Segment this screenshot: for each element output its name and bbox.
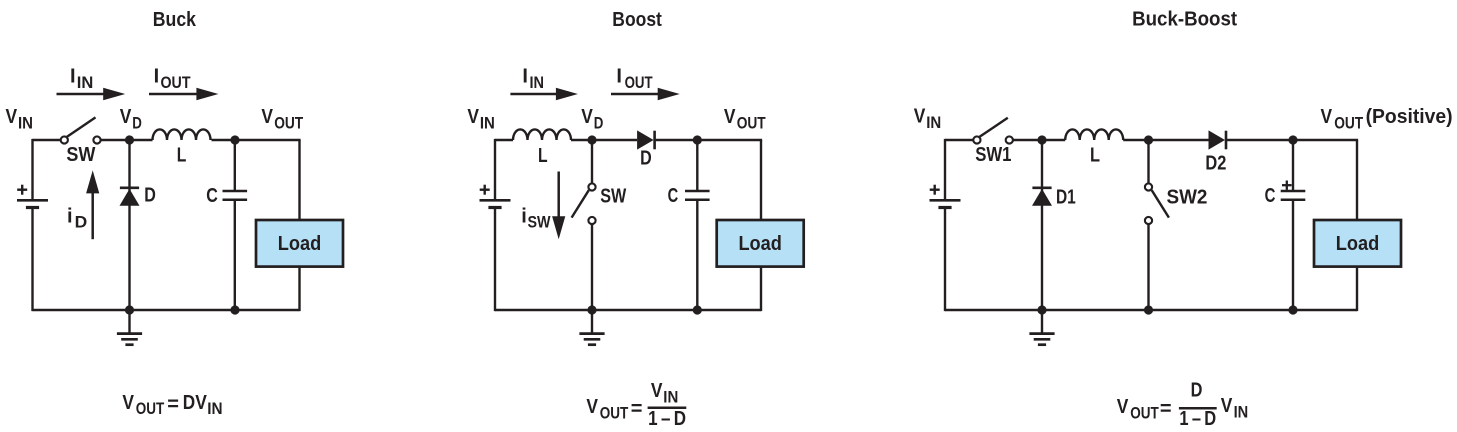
load box bbox=[717, 220, 804, 267]
wire: inductor to D2 (through SW2 node) bbox=[1123, 139, 1208, 141]
wire: SW2 to bottom rail bbox=[1147, 224, 1149, 310]
diode D (cathode up) bbox=[120, 188, 140, 206]
junction: cap top node (boost) bbox=[693, 135, 702, 144]
svg-text:V: V bbox=[261, 106, 273, 128]
svg-text:I: I bbox=[70, 66, 76, 88]
capacitor C plates bbox=[223, 191, 248, 200]
svg-text:V: V bbox=[467, 106, 479, 128]
svg-text:V: V bbox=[120, 106, 132, 128]
svg-text:IN: IN bbox=[207, 399, 222, 418]
wire: cap branch bottom (buck-boost) bbox=[1292, 200, 1294, 310]
junction: cap top node (buck-boost) bbox=[1288, 135, 1297, 144]
svg-text:OUT: OUT bbox=[625, 73, 653, 92]
svg-text:V: V bbox=[1221, 395, 1233, 417]
switch SW (boost, vertical open) bbox=[572, 183, 596, 224]
svg-text:IN: IN bbox=[530, 73, 545, 92]
wire: Vout down to load (boost) bbox=[760, 140, 762, 220]
wire: inductor to diode (through node VD) bbox=[571, 139, 637, 141]
wire: boost top-left to inductor bbox=[495, 139, 513, 141]
svg-text:V: V bbox=[724, 106, 736, 128]
wire: D2 to Vout corner bbox=[1227, 139, 1358, 141]
svg-text:Buck: Buck bbox=[153, 9, 197, 31]
svg-text:IN: IN bbox=[926, 113, 941, 132]
current arrow iSW (down) bbox=[552, 172, 565, 240]
svg-text:L: L bbox=[538, 145, 548, 167]
battery (voltage source) buck input source bbox=[17, 185, 48, 208]
svg-text:I: I bbox=[616, 66, 622, 88]
svg-text:D: D bbox=[183, 392, 195, 414]
svg-text:Load: Load bbox=[278, 233, 322, 255]
svg-text:V: V bbox=[586, 396, 598, 418]
svg-text:D: D bbox=[132, 114, 142, 133]
svg-text:SW: SW bbox=[600, 186, 626, 208]
inductor L (buck-boost) coil bbox=[1065, 129, 1123, 140]
formula: Vout = D Vin bbox=[122, 392, 222, 418]
svg-text:OUT: OUT bbox=[136, 399, 165, 418]
wire: load to bottom rail bbox=[298, 267, 300, 312]
current arrow IIN (boost) bbox=[510, 88, 578, 101]
svg-text:Load: Load bbox=[738, 233, 782, 255]
junction: cap bottom (buck-boost) bbox=[1288, 305, 1297, 314]
switch SW2 (vertical open) bbox=[1145, 183, 1169, 224]
load box bbox=[256, 220, 343, 267]
svg-text:OUT: OUT bbox=[600, 403, 629, 422]
svg-text:D: D bbox=[640, 148, 652, 170]
wire: buck left vertical (Vin to battery) bbox=[31, 139, 33, 200]
svg-text:C: C bbox=[206, 185, 218, 207]
svg-text:V: V bbox=[1321, 106, 1333, 128]
svg-text:C: C bbox=[668, 185, 679, 207]
svg-text:D: D bbox=[594, 114, 604, 133]
junction: D1 bottom bbox=[1037, 305, 1046, 314]
node: SW2 top junction bbox=[1144, 135, 1153, 144]
wire: top-left to SW1 bbox=[945, 139, 973, 141]
svg-text:IN: IN bbox=[1234, 402, 1249, 421]
wire: VD node down to switch bbox=[591, 140, 593, 183]
wire: Vout down to load bbox=[298, 140, 300, 220]
junction: cap top node bbox=[230, 135, 239, 144]
svg-text:IN: IN bbox=[77, 73, 94, 92]
wire: diode to Vout corner bbox=[656, 139, 763, 141]
wire: boost bottom rail bbox=[495, 309, 761, 311]
wire: load to bottom rail (boost) bbox=[760, 267, 762, 312]
svg-text:i: i bbox=[67, 205, 73, 227]
current arrow IOUT (boost) bbox=[611, 88, 680, 101]
ground (boost) bbox=[579, 310, 604, 345]
load box bbox=[1314, 220, 1401, 267]
wire: load to bottom rail (buck-boost) bbox=[1356, 267, 1358, 312]
svg-text:i: i bbox=[521, 205, 527, 227]
svg-text:=: = bbox=[167, 394, 179, 416]
svg-text:1 – D: 1 – D bbox=[648, 408, 686, 430]
svg-text:=: = bbox=[1160, 398, 1172, 420]
polarity + of capacitor C bbox=[1282, 181, 1292, 190]
wire: cap branch top (buck-boost) bbox=[1292, 140, 1294, 191]
node: D1 top junction bbox=[1037, 135, 1046, 144]
svg-text:V: V bbox=[1117, 396, 1129, 418]
svg-text:SW2: SW2 bbox=[1167, 187, 1208, 209]
svg-text:OUT: OUT bbox=[737, 114, 766, 133]
capacitor C (boost) plates bbox=[685, 191, 710, 200]
svg-text:IN: IN bbox=[480, 114, 495, 133]
current arrow IOUT (buck) bbox=[149, 88, 218, 101]
svg-text:=: = bbox=[631, 398, 643, 420]
wire: cap branch top bbox=[234, 140, 236, 191]
wire: cap branch top (boost) bbox=[696, 140, 698, 191]
svg-text:I: I bbox=[154, 66, 160, 88]
wire: boost left vertical bbox=[494, 139, 496, 200]
wire: diode branch vertical bbox=[128, 140, 130, 310]
wire: buck bottom rail bbox=[33, 309, 300, 311]
diode D2 (cathode right) bbox=[1209, 130, 1227, 149]
junction: switch bottom (boost) bbox=[587, 305, 596, 314]
svg-text:IN: IN bbox=[663, 388, 678, 407]
svg-text:SW: SW bbox=[66, 144, 95, 166]
wire: buck top-left to switch bbox=[33, 139, 61, 141]
svg-text:V: V bbox=[195, 392, 207, 414]
capacitor C (buck-boost) plates bbox=[1281, 191, 1306, 200]
formula: Vout = Vin/(1-D) bbox=[586, 380, 686, 430]
wire: D1 branch vertical bbox=[1041, 140, 1043, 310]
svg-text:D: D bbox=[75, 212, 88, 231]
svg-text:OUT: OUT bbox=[161, 73, 192, 92]
current arrow iD (up) bbox=[86, 170, 99, 239]
svg-text:V: V bbox=[651, 380, 663, 402]
svg-text:D1: D1 bbox=[1056, 187, 1076, 209]
junction: cap bottom bbox=[230, 305, 239, 314]
svg-text:D2: D2 bbox=[1205, 153, 1226, 175]
wire: cap branch bottom bbox=[234, 200, 236, 310]
switch SW (open, horizontal) bbox=[61, 117, 101, 143]
ground bbox=[117, 310, 142, 345]
node VD junction (boost) bbox=[587, 135, 596, 144]
junction: diode bottom bbox=[125, 305, 134, 314]
ground (buck-boost) bbox=[1029, 310, 1054, 345]
diode D (boost) (cathode right) bbox=[637, 130, 655, 149]
svg-text:Buck-Boost: Buck-Boost bbox=[1132, 9, 1237, 31]
wire: boost battery to bottom rail bbox=[494, 208, 496, 312]
svg-text:1 – D: 1 – D bbox=[1179, 408, 1216, 430]
svg-text:D: D bbox=[1191, 380, 1203, 402]
wire: Vout down to load (buck-boost) bbox=[1356, 140, 1358, 220]
svg-text:Load: Load bbox=[1336, 233, 1380, 255]
svg-text:C: C bbox=[1265, 185, 1276, 207]
switch SW1 (open, horizontal) bbox=[973, 118, 1013, 144]
junction: cap bottom (boost) bbox=[693, 305, 702, 314]
wire: buck-boost battery to bottom rail bbox=[944, 208, 946, 312]
wire: buck battery to bottom rail bbox=[31, 208, 33, 312]
svg-text:V: V bbox=[122, 392, 134, 414]
svg-text:Boost: Boost bbox=[612, 9, 662, 31]
inductor L (boost) coil bbox=[513, 129, 571, 140]
svg-text:IN: IN bbox=[18, 114, 33, 133]
svg-text:D: D bbox=[144, 185, 156, 207]
junction: SW2 bottom bbox=[1144, 305, 1153, 314]
battery (voltage source) boost input source bbox=[480, 185, 511, 208]
wire: cap branch bottom (boost) bbox=[696, 200, 698, 310]
wire: buck-boost bottom rail bbox=[945, 309, 1357, 311]
formula: Vout = D/(1-D) Vin bbox=[1117, 380, 1248, 431]
svg-text:V: V bbox=[581, 106, 593, 128]
svg-text:L: L bbox=[177, 144, 187, 166]
svg-text:OUT: OUT bbox=[1334, 114, 1363, 133]
svg-text:SW: SW bbox=[528, 212, 552, 231]
svg-text:I: I bbox=[522, 66, 528, 88]
svg-text:OUT: OUT bbox=[1130, 403, 1159, 422]
battery (voltage source) buck-boost input source bbox=[930, 185, 961, 208]
svg-text:(Positive): (Positive) bbox=[1366, 106, 1453, 128]
svg-text:V: V bbox=[914, 106, 926, 128]
wire: buck-boost left vertical bbox=[944, 139, 946, 200]
current arrow IIN (buck) bbox=[57, 88, 126, 101]
wire: SW2 node down to switch bbox=[1147, 140, 1149, 183]
svg-text:V: V bbox=[6, 106, 18, 128]
diode D1 (cathode up) bbox=[1032, 188, 1052, 206]
inductor L coil bbox=[153, 129, 211, 140]
svg-text:L: L bbox=[1090, 144, 1100, 166]
wire: SW1 to inductor (through D1 node) bbox=[1013, 139, 1065, 141]
wire: switch to bottom rail bbox=[591, 224, 593, 310]
svg-text:OUT: OUT bbox=[274, 114, 303, 133]
node VD junction bbox=[125, 135, 134, 144]
svg-text:SW1: SW1 bbox=[975, 144, 1011, 166]
wire: inductor to Vout corner bbox=[212, 139, 301, 141]
wire: switch to inductor (through node VD) bbox=[101, 139, 153, 141]
